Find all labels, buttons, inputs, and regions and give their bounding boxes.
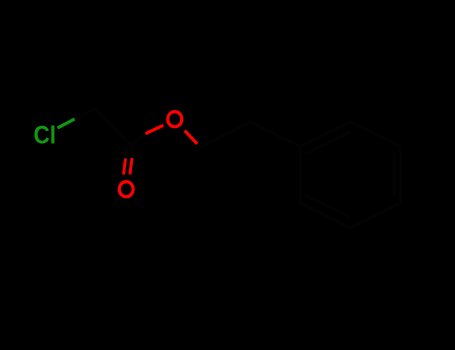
atom label O (carbonyl) [119,182,133,197]
benzene ring edges [300,122,400,228]
bond Cl-C2 (dark half) [75,109,96,120]
aromatic inner line 1 [306,132,350,154]
svg-text:Cl: Cl [34,121,56,149]
bond O(ester)-C3 red half [185,131,198,144]
bond C1=O red stub left [124,159,126,175]
aromatic inner line 3 [306,195,350,217]
atom label O (ester) [168,112,182,127]
bond C1=O red stub right [130,158,132,175]
bond C2-C1 (carbonyl) [95,109,131,146]
wire: faint carbon skeleton (near-black) [75,109,401,228]
bond C4-C5 (ring attach) [250,122,300,146]
bond C3-C4 [201,122,251,147]
bond C1=O double (dark halves) [126,147,128,159]
bond C1-O(ester) red half [145,125,163,133]
bond Cl-C2 green half [58,119,75,128]
bond C1-O(ester) dark half [131,134,146,145]
bond O(ester)-C3 dark tail [197,144,200,147]
aromatic inner line 2 [393,154,396,196]
